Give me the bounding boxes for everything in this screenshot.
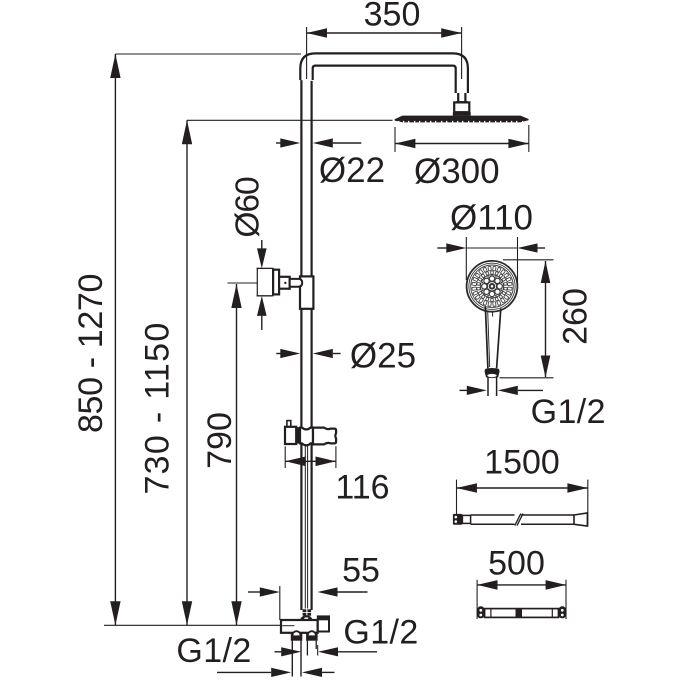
dimension 260 xyxy=(500,260,595,378)
dimension 1500 xyxy=(457,444,588,527)
hand shower head xyxy=(467,261,518,312)
valve body xyxy=(281,620,318,633)
slider holder xyxy=(285,421,336,446)
wire: extension line top (850-1270 reference at arm top) xyxy=(115,53,301,55)
hand shower ferrule xyxy=(485,368,500,378)
overhead shower connector collar xyxy=(456,93,468,102)
overhead shower connector block xyxy=(453,102,471,115)
svg-text:500: 500 xyxy=(488,545,545,583)
hand shower connector tube xyxy=(488,378,497,397)
shower arm (top bend) xyxy=(300,53,468,93)
shower column riser pipe xyxy=(301,70,311,610)
dimension G1/2 (valve outlet row) xyxy=(275,614,419,657)
svg-text:Ø22: Ø22 xyxy=(319,151,385,190)
dimension Ø110 xyxy=(437,199,545,286)
dimension Ø60 xyxy=(230,177,273,330)
svg-text:Ø60: Ø60 xyxy=(230,177,267,238)
dimension 500 xyxy=(477,545,566,620)
svg-text:Ø300: Ø300 xyxy=(414,152,500,191)
dimension Ø25 xyxy=(276,337,416,376)
svg-text:1500: 1500 xyxy=(484,444,560,482)
svg-text:55: 55 xyxy=(342,552,380,590)
dimension 55 xyxy=(248,552,380,621)
svg-text:Ø25: Ø25 xyxy=(350,337,416,376)
wall bracket arm xyxy=(279,277,302,289)
svg-text:730 - 1150: 730 - 1150 xyxy=(139,321,177,494)
wire: bottom baseline xyxy=(104,624,294,626)
svg-text:350: 350 xyxy=(364,0,421,34)
svg-text:850 - 1270: 850 - 1270 xyxy=(72,274,110,433)
svg-text:Ø110: Ø110 xyxy=(450,199,533,238)
svg-text:G1/2: G1/2 xyxy=(531,393,606,431)
dimension Ø300 xyxy=(395,125,529,191)
wall bracket Ø60 xyxy=(257,268,279,295)
svg-text:G1/2: G1/2 xyxy=(343,614,418,652)
inlet tailpipes xyxy=(292,640,317,676)
valve inlet right xyxy=(307,631,317,640)
dimension 850 - 1270 xyxy=(72,54,121,625)
dimension 116 xyxy=(285,446,389,506)
riser sleeve at bracket xyxy=(300,276,313,308)
shower hose xyxy=(453,513,588,526)
svg-text:116: 116 xyxy=(335,469,389,507)
svg-text:G1/2: G1/2 xyxy=(176,632,251,670)
valve inlet left xyxy=(291,631,301,640)
dimension 790 xyxy=(201,283,269,625)
dimension 350 xyxy=(307,0,462,79)
wire: extension line (730-1150 reference at head bottom) xyxy=(187,119,393,121)
valve ball joint xyxy=(300,616,312,621)
dimension 730 - 1150 xyxy=(139,120,193,625)
dimension Ø22 xyxy=(276,138,385,190)
wall bar 500 xyxy=(477,606,566,618)
svg-text:790: 790 xyxy=(201,412,239,469)
valve outlet (right) xyxy=(318,616,329,631)
overhead shower head (side profile) xyxy=(395,116,529,123)
svg-text:260: 260 xyxy=(557,288,595,345)
bottom thread between riser and valve xyxy=(303,609,312,615)
dimension G1/2 (hand shower) xyxy=(460,386,606,431)
dimension G1/2 (inlet row bottom) xyxy=(176,632,334,677)
hand shower handle xyxy=(485,307,500,368)
